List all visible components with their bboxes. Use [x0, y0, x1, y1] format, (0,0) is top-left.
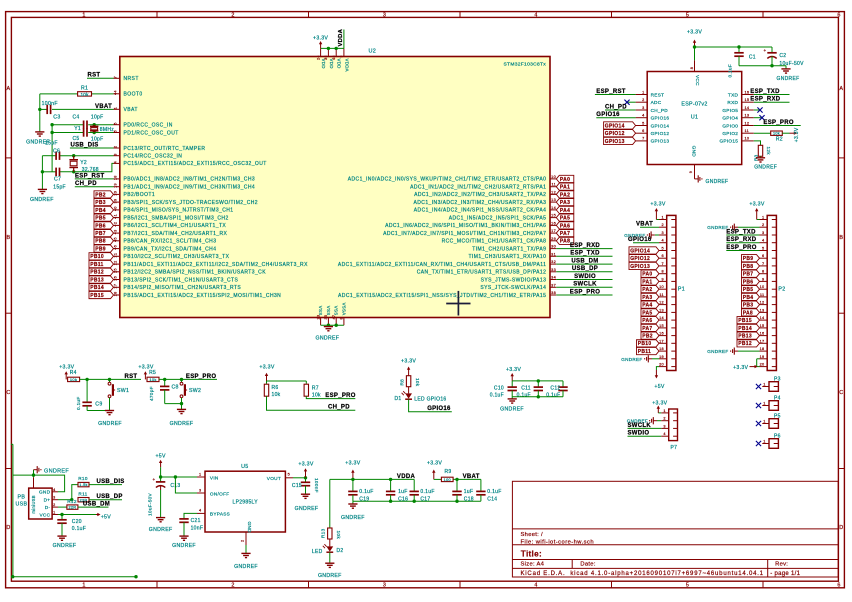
P2 pin 4	[760, 242, 768, 244]
capacitor C21 10nF at BYPASS	[184, 513, 197, 519]
svg-text:38: 38	[551, 291, 556, 295]
svg-text:VDDA: VDDA	[338, 28, 344, 46]
svg-text:PB10: PB10	[638, 341, 652, 347]
svg-text:GNDREF: GNDREF	[149, 527, 173, 533]
svg-text:PA7: PA7	[642, 326, 652, 332]
svg-text:14: 14	[760, 316, 765, 320]
svg-text:P4: P4	[774, 396, 781, 402]
svg-text:- page 1/1: - page 1/1	[770, 571, 800, 577]
capacitor C1 0.1uF	[734, 52, 743, 54]
svg-text:R9: R9	[445, 469, 452, 475]
svg-text:P7: P7	[671, 445, 678, 451]
power +3.3V at R2 (rotated)	[790, 132, 795, 134]
svg-text:C7: C7	[54, 177, 61, 183]
svg-text:4: 4	[53, 488, 55, 492]
svg-text:6: 6	[661, 254, 663, 258]
wire VDDA gnd rail	[353, 500, 481, 502]
global label PA5 at P1 pin 13	[641, 309, 659, 316]
svg-text:23: 23	[316, 315, 320, 320]
global label PB2 at P1 pin 16	[641, 332, 659, 339]
svg-text:USB_DP: USB_DP	[97, 494, 123, 500]
svg-text:PB9: PB9	[95, 247, 106, 253]
svg-text:Title:: Title:	[521, 550, 542, 559]
wire and label ESP_PRO	[556, 294, 612, 296]
svg-text:4: 4	[762, 239, 764, 243]
svg-text:2: 2	[114, 146, 118, 148]
svg-text:C4: C4	[73, 114, 80, 120]
U5 pin 4 BYPASS	[197, 512, 205, 514]
mcu pin 5 PD0	[114, 124, 120, 126]
svg-text:5: 5	[686, 583, 689, 589]
P1 pin 20	[659, 366, 667, 368]
power +3.3V at VOUT	[305, 471, 307, 478]
svg-text:BYPASS: BYPASS	[210, 512, 230, 517]
svg-text:ESP_RXD: ESP_RXD	[750, 97, 780, 103]
P2 pin 10	[760, 288, 768, 290]
label VBAT at mcu pin 1	[95, 108, 114, 110]
LED D1 circuit: power +3.3V at R8	[408, 369, 410, 376]
mcu pin 39 PB3	[114, 201, 120, 203]
mcu pin 46 PB9	[114, 248, 120, 250]
svg-text:ESP_PRO: ESP_PRO	[570, 289, 600, 295]
svg-text:100nF: 100nF	[314, 478, 319, 493]
esp pin 12 GPIO0	[742, 125, 754, 127]
svg-text:+3.3V: +3.3V	[313, 36, 328, 42]
svg-text:1: 1	[762, 216, 764, 220]
svg-text:R8: R8	[399, 379, 404, 386]
svg-text:A: A	[7, 86, 11, 92]
svg-text:LP2985LY: LP2985LY	[233, 499, 259, 505]
global label PB14 at P2 pin 15	[737, 324, 760, 331]
svg-text:PB13: PB13	[90, 277, 104, 283]
svg-text:4: 4	[663, 432, 665, 436]
P2 pin 20	[760, 366, 768, 368]
svg-text:SYS_JTMS-SWDIO/PA13: SYS_JTMS-SWDIO/PA13	[481, 277, 547, 283]
global label PA6 at P1 pin 14	[641, 317, 659, 324]
svg-text:7: 7	[762, 262, 764, 266]
global label PA7 at P1 pin 15	[641, 324, 659, 331]
svg-text:21: 21	[113, 253, 117, 258]
global label PA3	[556, 199, 574, 206]
svg-text:12: 12	[659, 301, 664, 305]
svg-text:PA8: PA8	[743, 310, 753, 316]
capacitor C15 100nF	[305, 478, 307, 483]
resistor R4 10k	[68, 377, 80, 381]
svg-text:D-: D-	[45, 505, 51, 510]
global label PB3 at P2 pin 12	[742, 301, 760, 308]
svg-text:SWCLK: SWCLK	[628, 423, 652, 429]
svg-text:6: 6	[642, 129, 644, 133]
svg-text:10: 10	[551, 175, 556, 179]
U5 pin 1 VIN	[197, 476, 205, 478]
svg-text:Y1: Y1	[74, 126, 81, 132]
global label PA4	[556, 206, 574, 213]
wire caps to ground	[738, 56, 740, 65]
svg-text:C21: C21	[191, 518, 201, 524]
svg-text:PB0/ADC1_IN8/ADC2_IN8/TIM1_CH2: PB0/ADC1_IN8/ADC2_IN8/TIM1_CH2N/TIM3_CH3	[124, 177, 256, 183]
wire gnd rail (C10-C12)	[512, 396, 563, 398]
wire VDDA top rail	[330, 478, 414, 480]
global label PB2	[94, 191, 114, 198]
svg-text:16: 16	[745, 90, 750, 94]
ground GNDREF at C20	[57, 535, 66, 537]
svg-text:PB15: PB15	[738, 318, 752, 324]
esp pin 16 TXD	[742, 94, 754, 96]
svg-text:U5: U5	[241, 464, 248, 470]
svg-text:PB4/SPI1_MISO/SYS_NJTRST/TIM3_: PB4/SPI1_MISO/SYS_NJTRST/TIM3_CH1	[124, 208, 234, 214]
svg-text:PB7: PB7	[95, 231, 106, 237]
svg-text:ESP_RST: ESP_RST	[596, 89, 625, 95]
svg-text:REST: REST	[651, 92, 665, 97]
svg-text:C: C	[6, 390, 10, 396]
svg-text:10uF-50V: 10uF-50V	[148, 492, 153, 516]
wire and label ESP_TXD	[556, 255, 612, 257]
svg-text:ADC1_IN4/ADC2_IN4/SPI1_NSS/USA: ADC1_IN4/ADC2_IN4/SPI1_NSS/USART2_CK/PA4	[414, 208, 547, 214]
label ESP_PRO at P2 pin 5	[726, 250, 759, 252]
svg-text:ESP_PRO: ESP_PRO	[763, 120, 793, 126]
P1 pin 9	[659, 280, 667, 282]
svg-text:100: 100	[444, 478, 451, 482]
svg-text:GNDREF: GNDREF	[170, 421, 194, 427]
wire esp VCC to caps	[694, 47, 696, 60]
resistor R6 10k	[266, 381, 268, 384]
svg-text:26: 26	[113, 276, 117, 281]
global label PB7 at P2 pin 8	[742, 270, 760, 277]
global label PB10	[89, 253, 114, 260]
svg-text:GPIO12: GPIO12	[630, 256, 650, 262]
svg-text:20: 20	[114, 191, 118, 196]
svg-text:PC13/RTC_OUT/RTC_TAMPER: PC13/RTC_OUT/RTC_TAMPER	[124, 146, 206, 152]
global label PB8 at P2 pin 7	[742, 262, 760, 269]
svg-text:45: 45	[113, 237, 117, 242]
P1 pin 4	[659, 242, 667, 244]
esp module U1 body	[647, 72, 742, 165]
svg-text:PB15: PB15	[90, 293, 104, 299]
esp pin 10 GPIO15	[742, 140, 754, 142]
resistor R11 22R (USB_DP)	[78, 498, 89, 502]
svg-text:11: 11	[745, 129, 750, 133]
capacitor C3 100nF on VBAT	[40, 108, 47, 110]
svg-text:24: 24	[316, 55, 320, 60]
svg-text:GNDREF: GNDREF	[754, 165, 777, 171]
svg-text:PA5: PA5	[642, 310, 652, 316]
svg-text:10uF-50V: 10uF-50V	[779, 61, 804, 67]
svg-text:ADC1_IN3/ADC2_IN3/TIM2_CH4/USA: ADC1_IN3/ADC2_IN3/TIM2_CH4/USART2_RX/PA3	[414, 200, 547, 206]
svg-text:470pF: 470pF	[149, 386, 154, 401]
mcu pin 1 VBAT	[114, 108, 120, 110]
svg-text:USB_DM: USB_DM	[571, 259, 598, 265]
connector P7 body (SWD)	[669, 409, 678, 441]
svg-text:+: +	[764, 48, 767, 53]
esp pin 5 GPIO14	[636, 125, 648, 127]
wire along left/bottom border	[11, 443, 13, 445]
svg-text:SW1: SW1	[117, 388, 129, 394]
svg-text:10: 10	[760, 285, 765, 289]
label ESP_RXD at P2 pin 4	[726, 242, 759, 244]
mcu pin 14 PA4	[550, 209, 556, 211]
label RST at NRST pin	[87, 77, 114, 79]
svg-text:20: 20	[659, 363, 664, 367]
pushbutton SW2	[181, 379, 183, 382]
svg-text:8: 8	[690, 67, 694, 69]
wire usb GND pin to flag net	[34, 475, 65, 492]
no-connect at esp GPIO4	[754, 117, 762, 119]
svg-text:+5V: +5V	[654, 384, 665, 390]
svg-text:PB12: PB12	[738, 341, 752, 347]
P2 pin 16	[760, 335, 768, 337]
svg-text:PB: PB	[18, 494, 26, 500]
svg-text:10k: 10k	[336, 531, 341, 540]
svg-text:PB13/SPI2_SCK/TIM1_CH1N/USART3: PB13/SPI2_SCK/TIM1_CH1N/USART3_CTS	[124, 277, 239, 283]
svg-text:1.5k: 1.5k	[79, 483, 87, 487]
resistor R3 on esp GPIO15 to gnd	[754, 141, 761, 146]
ground flag GNDREF at P1 pin 3	[655, 234, 659, 236]
U5 pin 2 GND (bottom)	[245, 532, 247, 545]
svg-text:3: 3	[663, 424, 665, 428]
svg-text:18: 18	[760, 347, 765, 351]
mcu pin 27 PB14	[114, 286, 120, 288]
svg-text:10k: 10k	[312, 392, 321, 398]
svg-text:29: 29	[551, 237, 556, 241]
svg-text:+3.3V: +3.3V	[427, 460, 442, 466]
svg-text:0.1uF: 0.1uF	[727, 64, 732, 78]
svg-text:PB8/CAN_RX/I2C1_SCL/TIM4_CH3: PB8/CAN_RX/I2C1_SCL/TIM4_CH3	[124, 239, 217, 245]
wire ESP_PRO node	[159, 378, 217, 380]
esp pin 2 ADC	[636, 101, 648, 103]
ground GNDREF at C10	[511, 397, 513, 399]
svg-text:GNDREF: GNDREF	[53, 543, 77, 549]
svg-text:15: 15	[760, 324, 765, 328]
svg-text:+3.3V: +3.3V	[687, 29, 702, 35]
mcu pin 33 PA12	[550, 271, 556, 273]
capacitor C16 1uF (VDDA)	[390, 479, 392, 491]
P1 pin 13	[659, 311, 667, 313]
svg-text:1: 1	[82, 583, 85, 589]
svg-text:GPIO13: GPIO13	[651, 139, 670, 144]
svg-text:PB4: PB4	[743, 295, 754, 301]
ground flag GNDREF at P2 pin 2	[738, 226, 760, 228]
label GPIO16 at esp pin 4	[596, 117, 635, 119]
svg-text:ESP_PRO: ESP_PRO	[726, 245, 756, 251]
mcu pin 2 PC13	[114, 147, 120, 149]
svg-text:C3: C3	[53, 115, 60, 121]
svg-text:B: B	[839, 235, 843, 241]
P1 pin 11	[659, 296, 667, 298]
svg-text:PA3: PA3	[560, 200, 570, 206]
svg-text:15pF: 15pF	[53, 184, 66, 190]
mcu pin 6 PD1	[114, 132, 120, 134]
svg-text:GPIO12: GPIO12	[605, 131, 625, 137]
svg-text:5: 5	[642, 121, 644, 125]
svg-text:CH_PD: CH_PD	[605, 104, 627, 110]
svg-text:43: 43	[114, 229, 118, 234]
crystal Y2 32.768 circuit wires	[42, 155, 56, 157]
resistor R10 1.5k (USB_DIS)	[58, 499, 72, 501]
svg-text:U2: U2	[369, 49, 377, 55]
mcu pin 20 PB2	[114, 193, 120, 195]
svg-text:+3.3V: +3.3V	[733, 365, 748, 371]
P1 pin 7	[659, 265, 667, 267]
ground flag GNDREF at P2 pin 18	[738, 350, 760, 352]
svg-text:Size: A4: Size: A4	[521, 562, 545, 568]
svg-text:VBAT: VBAT	[463, 474, 480, 480]
svg-text:12: 12	[760, 301, 765, 305]
label ESP_RST at PB0	[75, 178, 114, 180]
svg-text:4: 4	[661, 239, 663, 243]
svg-text:1: 1	[199, 472, 201, 476]
capacitor C14 0.1uF (VBAT)	[480, 479, 482, 491]
P1 pin 14	[659, 319, 667, 321]
svg-text:12: 12	[551, 190, 556, 194]
svg-text:42: 42	[114, 222, 118, 227]
svg-text:GNDREF: GNDREF	[30, 197, 54, 203]
capacitor C8 470pF	[164, 379, 166, 386]
ground GNDREF at VDDA bank	[352, 501, 354, 504]
svg-text:ON/OFF: ON/OFF	[210, 491, 230, 496]
svg-text:13: 13	[551, 198, 556, 202]
svg-text:GNDREF: GNDREF	[98, 421, 122, 427]
P2 pin 7	[760, 265, 768, 267]
svg-text:ESP_PRO: ESP_PRO	[325, 393, 355, 399]
pullup resistors R6/R7: power +3.3V	[266, 375, 268, 381]
wire VDDA with label	[343, 30, 345, 49]
svg-text:1: 1	[53, 511, 55, 515]
P1 pin 3	[659, 234, 667, 236]
wire and label USB_DM	[556, 263, 612, 265]
svg-text:1uF: 1uF	[398, 489, 408, 495]
svg-text:+3.3V: +3.3V	[345, 460, 360, 466]
mcu pin 26 PB13	[114, 279, 120, 281]
no-connect at esp GPIO5	[754, 109, 760, 111]
wire VDD rail	[321, 47, 344, 49]
esp pin 8 VCC (top)	[694, 60, 696, 71]
svg-text:2: 2	[663, 417, 665, 421]
P7 pin 2	[661, 420, 669, 422]
global label PA3 at P1 pin 11	[641, 293, 659, 300]
svg-text:A: A	[839, 86, 843, 92]
svg-text:ESP_RST: ESP_RST	[75, 173, 104, 179]
ground GNDREF at R3	[756, 157, 765, 159]
P1 pin 15	[659, 327, 667, 329]
svg-text:GNDREF: GNDREF	[500, 407, 524, 413]
svg-text:10: 10	[659, 285, 664, 289]
svg-text:GPIO0: GPIO0	[722, 123, 738, 128]
svg-text:ESP_TXD: ESP_TXD	[726, 229, 756, 235]
global label PB12	[89, 268, 114, 275]
ground GNDREF at SW1	[105, 410, 114, 412]
svg-text:File: wifi-iot-core-hw.sch: File: wifi-iot-core-hw.sch	[521, 539, 595, 545]
wire + label ESP_RXD at esp pin 15	[754, 101, 790, 103]
P2 pin 3	[760, 234, 768, 236]
global label PB9	[94, 245, 114, 252]
global label PA1 at P1 pin 9	[641, 278, 659, 285]
svg-text:P3: P3	[774, 377, 781, 383]
svg-text:11: 11	[760, 293, 765, 297]
svg-text:14: 14	[745, 106, 750, 110]
esp pin 15 RXD	[742, 101, 754, 103]
resistor R9 100R	[434, 478, 442, 480]
svg-text:31: 31	[551, 252, 556, 256]
mcu pin 18 PB0	[114, 178, 120, 180]
P2 pin 1	[760, 219, 768, 221]
svg-text:18: 18	[659, 347, 664, 351]
ground GNDREF at C13	[156, 517, 165, 519]
svg-text:7: 7	[642, 137, 644, 141]
svg-text:ESP_RXD: ESP_RXD	[570, 243, 600, 249]
svg-text:PB14: PB14	[90, 285, 104, 291]
P2 pin 18	[760, 350, 768, 352]
ground flag GNDREF at P1 pin 19	[652, 358, 659, 360]
ground GNDREF at C21	[179, 535, 188, 537]
svg-text:34: 34	[551, 276, 556, 280]
ground GNDREF at C15	[301, 493, 310, 495]
svg-text:C10: C10	[494, 385, 504, 391]
svg-text:13: 13	[760, 308, 765, 312]
capacitor C9 0.1uF	[86, 379, 88, 402]
svg-text:GND: GND	[39, 490, 51, 495]
svg-text:CH_PD: CH_PD	[651, 108, 669, 113]
connector P1 body	[667, 215, 676, 370]
svg-text:5: 5	[288, 472, 290, 476]
svg-text:17: 17	[551, 229, 556, 233]
svg-text:ESP_TXD: ESP_TXD	[750, 89, 780, 95]
svg-text:2: 2	[231, 12, 234, 18]
svg-text:13: 13	[659, 308, 664, 312]
svg-text:PB7: PB7	[743, 272, 754, 278]
capacitor C20 0.1uF	[61, 515, 63, 520]
svg-text:+3.3V: +3.3V	[259, 364, 274, 370]
global label PB15	[89, 291, 114, 298]
svg-text:15: 15	[659, 324, 664, 328]
global label PB5	[94, 214, 114, 221]
svg-text:PB8: PB8	[743, 264, 754, 270]
ground GNDREF at esp caps	[781, 68, 790, 70]
svg-text:PB10: PB10	[90, 254, 104, 260]
power +3.3V at P7 pin 1	[658, 412, 661, 414]
svg-text:1: 1	[82, 12, 85, 18]
svg-text:GPIO13: GPIO13	[605, 139, 625, 145]
global label PA4 at P1 pin 12	[641, 301, 659, 308]
usb VCC wire to +5V	[58, 514, 96, 516]
power +5V (usb)	[96, 514, 98, 516]
svg-text:D+: D+	[44, 498, 51, 503]
svg-text:1uF: 1uF	[464, 489, 474, 495]
mcu pin 8 VSSA (bottom)	[343, 318, 345, 326]
svg-text:15: 15	[745, 98, 750, 102]
svg-text:PB2: PB2	[642, 334, 653, 340]
mcu pin 23 VSS (bottom)	[320, 318, 322, 326]
svg-text:PA5: PA5	[560, 216, 570, 222]
wire RST node	[80, 378, 141, 380]
global label PB7	[94, 230, 114, 237]
svg-text:LED GPIO16: LED GPIO16	[414, 396, 446, 402]
U5 pin 5 VOUT	[285, 477, 293, 479]
svg-text:PB11/ADC1_EXTI11/ADC2_EXTI11/I: PB11/ADC1_EXTI11/ADC2_EXTI11/I2C2_SDA/TI…	[124, 262, 309, 268]
svg-text:VBAT: VBAT	[636, 222, 653, 228]
global label GPIO14 at P1 pin 5	[629, 247, 659, 254]
global label PA1	[556, 183, 574, 190]
global label PB13 at P2 pin 16	[737, 332, 760, 339]
mcu pin 13 PA3	[550, 201, 556, 203]
svg-text:+3.3V: +3.3V	[298, 462, 313, 468]
svg-text:USB_DP: USB_DP	[572, 266, 598, 272]
svg-text:GPIO16: GPIO16	[596, 112, 620, 118]
svg-text:16: 16	[551, 221, 556, 225]
ground GNDREF (R1/C3)	[35, 131, 44, 133]
svg-text:25: 25	[114, 268, 118, 273]
mcu pin 31 PA10	[550, 255, 556, 257]
P2 pin 13	[760, 311, 768, 313]
